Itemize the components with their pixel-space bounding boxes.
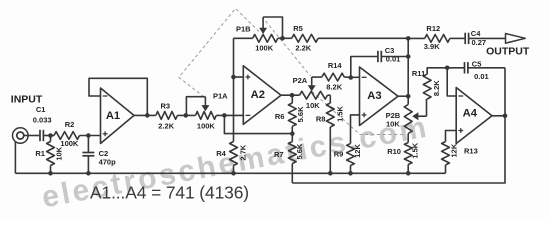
junction R10 ground (406, 171, 411, 176)
wire R5 to A3 output node (318, 37, 408, 39)
wire A4 feedback bottom line (292, 116, 505, 183)
svg-text:R2: R2 (65, 120, 75, 129)
svg-text:OUTPUT: OUTPUT (486, 45, 530, 57)
svg-text:P2A: P2A (293, 76, 308, 85)
svg-text:R12: R12 (426, 24, 440, 33)
capacitor C1 (39, 130, 41, 141)
capacitor C4 (464, 33, 466, 44)
svg-text:2.7K: 2.7K (238, 144, 247, 160)
svg-text:R8: R8 (316, 115, 326, 124)
resistor R13 (442, 142, 450, 166)
resistor R12 (425, 35, 450, 43)
junction R9 ground (348, 171, 353, 176)
svg-text:1.5K: 1.5K (336, 105, 345, 121)
junction A2 noninverting (231, 75, 236, 80)
svg-text:5.6K: 5.6K (296, 106, 305, 122)
potentiometer P2A (300, 91, 328, 99)
junction A1 output (145, 113, 150, 118)
wire R12 to C4 (450, 37, 465, 39)
svg-text:R4: R4 (216, 149, 226, 158)
wire C5 to A4 output (504, 68, 506, 116)
resistor R14 (322, 73, 345, 81)
wire P2A to R8 (328, 94, 331, 96)
op-amp A3 (360, 67, 399, 126)
svg-text:12K: 12K (353, 144, 362, 158)
svg-text:0.01: 0.01 (386, 54, 401, 63)
junction C2 ground (86, 171, 91, 176)
svg-text:10K: 10K (386, 120, 400, 129)
svg-text:100K: 100K (197, 121, 216, 130)
svg-text:R3: R3 (161, 102, 171, 111)
capacitor C2 (87, 136, 89, 153)
wire top rail right (408, 37, 425, 39)
svg-text:100K: 100K (60, 139, 79, 148)
svg-text:INPUT: INPUT (11, 93, 43, 105)
svg-text:0.033: 0.033 (33, 115, 52, 124)
node B junction (86, 133, 91, 138)
junction A2 out R6 (290, 93, 295, 98)
junction mid-rail R6 R7 (290, 131, 295, 136)
output terminal arrow (506, 34, 526, 44)
wire A1 output (134, 114, 156, 116)
svg-text:5.6K: 5.6K (295, 143, 304, 159)
junction P1B wiper R5 (280, 36, 285, 41)
op-amp A1 (101, 88, 135, 144)
capacitor C3 (351, 57, 378, 78)
svg-text:8.2K: 8.2K (326, 83, 342, 92)
junction R1 ground (48, 171, 53, 176)
node A junction (48, 133, 53, 138)
resistor R7 (291, 134, 293, 142)
wire C4 to output arrow (469, 37, 506, 39)
wire jack to ground rail (14, 142, 16, 174)
svg-text:P1A: P1A (213, 92, 228, 101)
svg-text:10K: 10K (306, 101, 320, 110)
junction A3 output (406, 94, 411, 99)
svg-text:10K: 10K (54, 146, 63, 160)
svg-text:R11: R11 (412, 69, 425, 78)
input jack J1 (12, 128, 28, 144)
svg-text:R10: R10 (387, 147, 401, 156)
resistor R9 (347, 144, 355, 166)
junction top rail (406, 36, 411, 41)
svg-text:470p: 470p (99, 158, 117, 167)
wire A1 feedback (89, 78, 147, 115)
svg-text:100K: 100K (255, 43, 274, 52)
svg-text:R5: R5 (293, 24, 303, 33)
ganged pot dashed link P2A-P2B (312, 92, 405, 135)
wire R2 to A1 (80, 135, 101, 137)
wire A2 output (281, 94, 300, 96)
wire A4 output (492, 115, 505, 117)
junction A4 inverting node (445, 66, 450, 71)
svg-text:A2: A2 (251, 89, 265, 101)
svg-text:2.2K: 2.2K (158, 121, 174, 130)
resistor R5 (292, 34, 318, 42)
svg-text:R7: R7 (274, 150, 284, 159)
wire P1A to A2 inverting input (216, 114, 243, 116)
svg-text:C4: C4 (471, 29, 481, 38)
wire to A3 inverting input (351, 76, 360, 78)
svg-text:R6: R6 (275, 112, 285, 121)
svg-text:A3: A3 (367, 90, 381, 102)
svg-text:12K: 12K (449, 143, 458, 157)
wire R3 to P1A (177, 114, 195, 116)
svg-text:R13: R13 (464, 146, 478, 155)
junction summing node (222, 113, 227, 118)
junction A4 output (503, 114, 508, 119)
wire A4 noninverting to R13 (446, 131, 457, 142)
svg-text:0.01: 0.01 (474, 72, 489, 81)
potentiometer P1A (196, 112, 217, 120)
op-amp A4 (456, 88, 492, 144)
wire C1 to node A (44, 135, 54, 137)
potentiometer P2B (404, 105, 412, 134)
wire P1B to R5 (278, 37, 292, 39)
wire to A2 noninverting input (234, 76, 244, 78)
svg-text:R9: R9 (334, 150, 344, 159)
ground rail (15, 172, 445, 174)
wire A3 output vertical (407, 38, 409, 104)
potentiometer P1B (253, 34, 278, 42)
wire summing node down to mid-rail (224, 115, 292, 133)
resistor R11 (423, 74, 431, 99)
resistor R6 (291, 95, 293, 103)
svg-text:C1: C1 (36, 105, 46, 114)
svg-text:C5: C5 (472, 60, 482, 69)
wire top rail left (234, 37, 253, 39)
resistor R1 (47, 142, 55, 166)
ganged pot dashed link P1B-P2A (266, 21, 311, 76)
resistor R2 (54, 132, 80, 140)
svg-text:1.5K: 1.5K (411, 142, 420, 158)
svg-text:A1: A1 (106, 110, 120, 122)
resistor R4 (230, 142, 238, 166)
svg-text:2.2K: 2.2K (295, 43, 311, 52)
wire P1B leg down (233, 38, 235, 141)
svg-text:C2: C2 (99, 149, 109, 158)
capacitor C5 (447, 67, 464, 69)
resistor R8 (329, 95, 331, 103)
svg-text:P1B: P1B (236, 24, 251, 33)
svg-text:A1...A4 = 741 (4136): A1...A4 = 741 (4136) (90, 183, 249, 203)
svg-text:8.2K: 8.2K (432, 80, 441, 96)
ganged pot dashed link P1A-P1B (179, 9, 259, 98)
junction R4 ground (231, 171, 236, 176)
resistor R3 (156, 112, 178, 120)
svg-text:3.9K: 3.9K (424, 42, 440, 51)
wire A4 inverting leg (447, 68, 456, 96)
svg-text:A4: A4 (463, 107, 478, 119)
svg-text:R14: R14 (328, 61, 343, 70)
wire A3 noninverting to R9 (351, 115, 360, 144)
op-amp A2 (243, 66, 281, 125)
resistor R10 (407, 134, 409, 143)
wire A3 output (398, 95, 408, 97)
junction C3 right (406, 54, 411, 59)
wire jack to C1 (24, 135, 39, 137)
junction A3 inverting node (349, 75, 354, 80)
junction R8 ground (328, 171, 333, 176)
junction P1A wiper return (184, 113, 189, 118)
svg-text:R1: R1 (35, 149, 45, 158)
